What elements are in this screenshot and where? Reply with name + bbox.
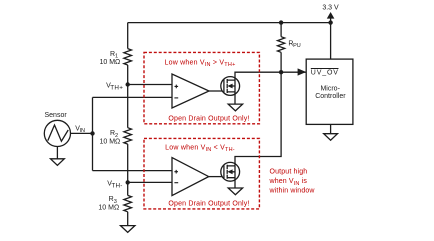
node output junction dot (RPU / drains / UV_OV) [279, 70, 283, 74]
ground (sensor) [51, 159, 65, 166]
wire Q1 drain to output node [235, 72, 306, 80]
wire R1 to VTH+ node [127, 65, 129, 128]
resistor R1 [124, 49, 132, 65]
node top-rail RPU tap junction dot [279, 20, 283, 24]
wire 3.3V tap down to microcontroller top [330, 23, 332, 60]
wire resistor chain top lead [127, 23, 129, 49]
resistor RPU [278, 37, 285, 53]
svg-text:10 MΩ: 10 MΩ [100, 59, 121, 66]
sensor SRC1 [44, 120, 70, 146]
svg-text:10 MΩ: 10 MΩ [98, 205, 119, 212]
transistor Q1 (open-drain NMOS) [221, 77, 240, 96]
svg-text:PU: PU [293, 43, 301, 49]
node VTH+ junction dot [126, 82, 130, 86]
comparator U1 [172, 74, 209, 108]
wire R2 to VTH- node [127, 144, 129, 195]
annotation dashed box 1 (upper comparator) [144, 52, 259, 123]
svg-text:UV_OV: UV_OV [311, 69, 339, 76]
wire RPU bottom lead to output node [280, 52, 282, 72]
resistor R3 [124, 195, 132, 211]
node VIN junction dot [90, 131, 94, 135]
ground (Q2) [228, 188, 242, 195]
svg-text:Controller: Controller [315, 93, 346, 100]
wire U1 output to Q1 gate [209, 90, 224, 92]
transistor Q2 (open-drain NMOS) [221, 162, 240, 181]
wire VIN to comparator U1 - input [93, 96, 173, 98]
node VTH- junction dot [126, 180, 130, 184]
wire VIN vertical bus [92, 97, 94, 170]
wire sensor output VIN [70, 132, 92, 134]
ground (Q1) [228, 104, 242, 111]
wire Q1 source to ground [234, 80, 236, 104]
wire RPU top lead [280, 23, 282, 37]
wire microcontroller to ground [330, 124, 332, 133]
svg-text:Open Drain Output Only!: Open Drain Output Only! [168, 115, 249, 122]
svg-text:Output high: Output high [270, 169, 308, 176]
svg-text:IN: IN [80, 128, 86, 134]
svg-text:Open Drain Output Only!: Open Drain Output Only! [168, 201, 249, 208]
svg-text:TH-: TH- [111, 183, 122, 190]
wire VIN to comparator U2 + input [93, 170, 173, 172]
wire R3 to ground [127, 212, 129, 226]
wire top rail from resistor chain to 3.3V tap [128, 22, 331, 24]
microcontroller U3 box [306, 59, 353, 124]
node top-rail 3.3V tap junction dot [328, 20, 332, 24]
resistor R2 [124, 128, 132, 144]
svg-text:within window: within window [269, 187, 316, 194]
ground (divider) [121, 226, 135, 233]
svg-text:10 MΩ: 10 MΩ [100, 139, 121, 146]
label Micro-Controller [315, 86, 346, 100]
wire Q2 drain up to output node [235, 72, 281, 166]
wire VTH+ to comparator U1 + input [128, 84, 172, 86]
svg-text:Sensor: Sensor [45, 112, 68, 119]
annotation dashed box 2 (lower comparator) [144, 138, 259, 209]
ground (microcontroller) [324, 134, 338, 141]
wire arrow into microcontroller UV_OV pin [298, 68, 307, 75]
wire sensor to ground [56, 146, 58, 159]
comparator U2 [172, 158, 209, 196]
pin UV_OV (active-low, overline) [311, 69, 339, 77]
wire Q2 source to ground [234, 166, 236, 188]
svg-text:Micro-: Micro- [320, 86, 340, 93]
annotation text: Output high when VIN is within window [269, 169, 316, 195]
svg-text:TH+: TH+ [110, 85, 123, 92]
wire U2 output to Q2 gate [209, 176, 224, 178]
wire VTH- to comparator U2 - input [128, 181, 172, 183]
power 3.3V arrow [327, 12, 335, 23]
svg-text:3.3 V: 3.3 V [322, 4, 339, 11]
